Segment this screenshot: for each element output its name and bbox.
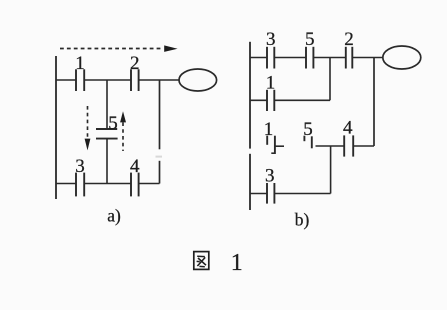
coil (a) [179,69,217,91]
contact 2 (b rung1) [346,47,353,69]
contact 1 (b rung2) [267,90,274,111]
svg-text:5: 5 [303,119,313,140]
wire branch connector rung4-rung3 (b) [330,146,332,194]
svg-text:4: 4 [130,156,140,177]
svg-text:a): a) [107,205,121,225]
svg-text:4: 4 [343,117,353,138]
svg-text:1: 1 [231,250,243,276]
wire rung1 (a) [56,79,179,81]
wire stub right of contact 1 (b rung3) [275,145,284,147]
contact 1 (a) [76,69,84,91]
wire rung3 right (b) [353,145,374,147]
contact 3 (a) [76,173,84,197]
coil (b) [383,46,421,69]
wire middle branch lower (a) [106,139,108,184]
svg-text:5: 5 [108,113,118,134]
contact 3 (b rung1) [267,47,274,69]
faint break smudge (a) [156,156,163,158]
contact 4 (b rung3) [344,135,353,156]
contact 5 (b rung3, faded) [304,136,311,149]
svg-text:1: 1 [264,119,274,140]
caption glyph 图 [194,252,209,270]
left power rail (a) [55,56,57,199]
wire branch connector rung2-rung1 (b) [329,58,331,101]
svg-text:3: 3 [75,156,85,177]
left power rail (b, with break) [249,42,251,210]
dashed arrow up (a, right of contact 5) [120,111,126,151]
wire rung1 (b) [250,57,383,59]
svg-text:b): b) [295,209,310,229]
contact 1 (b rung3, faded) [267,136,275,154]
dashed arrow down (a, left of contact 5) [85,106,91,150]
contact 5 (b rung1) [306,47,313,69]
svg-text:1: 1 [266,72,276,93]
wire right vertical lower (a) [159,161,161,184]
svg-text:1: 1 [75,53,85,74]
wire middle branch upper (a) [106,80,108,129]
contact 5 (a, vertical branch) [96,129,118,139]
wire right vertical (b) [373,58,375,147]
wire right vertical upper (a) [159,80,161,149]
contact 3 (b rung4) [267,183,274,204]
svg-text:5: 5 [305,29,315,50]
contact 2 (a) [131,69,139,91]
svg-text:2: 2 [130,53,140,74]
contact 4 (a) [131,173,139,197]
wire rung4 (b) [250,193,331,195]
wire rung2 bottom (a) [56,183,160,185]
dashed signal-flow arrow (top of a, pointing right) [60,45,178,52]
svg-text:3: 3 [266,29,276,50]
svg-text:3: 3 [265,165,275,186]
wire rung2 (b) [250,99,330,101]
svg-text:2: 2 [344,29,354,50]
wire rung3 middle (b) [316,145,345,147]
